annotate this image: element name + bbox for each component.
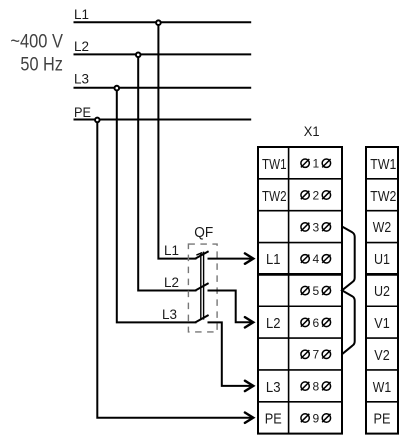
svg-text:W2: W2 (373, 220, 391, 236)
svg-text:L1: L1 (266, 252, 281, 268)
svg-text:PE: PE (74, 104, 91, 120)
svg-text:TW1: TW1 (370, 157, 396, 173)
svg-text:L1: L1 (164, 242, 179, 258)
svg-text:U2: U2 (374, 284, 390, 300)
svg-text:V2: V2 (374, 348, 389, 364)
svg-text:L2: L2 (266, 316, 281, 332)
svg-text:L3: L3 (74, 71, 89, 87)
svg-text:TW1: TW1 (262, 157, 287, 173)
svg-text:1: 1 (312, 157, 319, 171)
svg-text:L3: L3 (162, 306, 177, 322)
svg-text:PE: PE (265, 412, 282, 428)
svg-text:8: 8 (312, 380, 319, 394)
svg-text:L2: L2 (74, 38, 89, 54)
svg-text:4: 4 (312, 252, 319, 266)
svg-text:L1: L1 (74, 6, 89, 22)
svg-text:U1: U1 (374, 252, 390, 268)
svg-text:L3: L3 (266, 380, 281, 396)
svg-text:6: 6 (312, 316, 319, 330)
svg-text:3: 3 (312, 220, 319, 234)
svg-text:TW2: TW2 (262, 189, 287, 205)
svg-text:QF: QF (194, 225, 213, 241)
svg-text:W1: W1 (373, 380, 391, 396)
svg-text:V1: V1 (374, 316, 389, 332)
svg-text:9: 9 (312, 411, 319, 425)
svg-text:7: 7 (312, 348, 319, 362)
svg-text:PE: PE (374, 412, 391, 428)
svg-text:L2: L2 (164, 274, 179, 290)
svg-text:X1: X1 (304, 123, 320, 139)
svg-text:5: 5 (312, 284, 319, 298)
svg-text:~400 V: ~400 V (10, 32, 63, 53)
svg-text:TW2: TW2 (370, 189, 396, 205)
svg-text:2: 2 (312, 188, 319, 202)
svg-text:50 Hz: 50 Hz (20, 54, 63, 75)
